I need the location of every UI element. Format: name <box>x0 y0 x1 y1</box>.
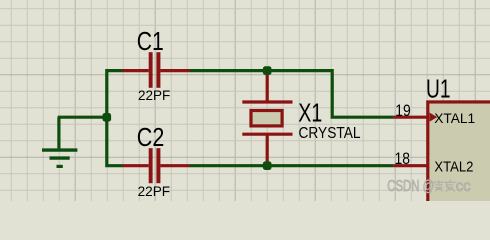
svg-text:CSDN @: CSDN @ <box>387 178 434 195</box>
node A: junction C1/crystal top <box>263 66 272 75</box>
svg-text:cc: cc <box>456 178 471 195</box>
svg-text:XTAL2: XTAL2 <box>434 159 473 176</box>
svg-text:22PF: 22PF <box>138 87 170 103</box>
svg-text:C2: C2 <box>137 122 165 152</box>
pin 19 <box>393 113 437 122</box>
wire: ground tap <box>58 116 107 119</box>
capacitor C1 <box>122 52 189 88</box>
svg-text:22PF: 22PF <box>138 183 171 199</box>
svg-text:C1: C1 <box>137 26 164 56</box>
node C: junction C2/crystal bottom <box>263 161 272 170</box>
wire: C2 right to pin18 <box>190 164 394 167</box>
ground <box>42 117 77 166</box>
svg-text:XTAL1: XTAL1 <box>434 110 475 126</box>
wire: C1 right to corner to pin19 <box>190 71 394 118</box>
capacitor C2 <box>122 148 189 183</box>
chip U1 body <box>428 102 490 203</box>
pin 18 <box>393 164 427 167</box>
svg-text:U1: U1 <box>426 74 451 104</box>
svg-text:18: 18 <box>395 150 411 168</box>
crystal X1 <box>242 72 292 166</box>
node B: junction ground tap <box>103 113 112 122</box>
svg-text:19: 19 <box>395 102 411 120</box>
watermark CSDN @零度cc <box>387 178 471 195</box>
svg-text:CRYSTAL: CRYSTAL <box>299 125 361 142</box>
svg-text:X1: X1 <box>298 98 322 128</box>
wire: C1 left vertical bus <box>107 71 123 166</box>
